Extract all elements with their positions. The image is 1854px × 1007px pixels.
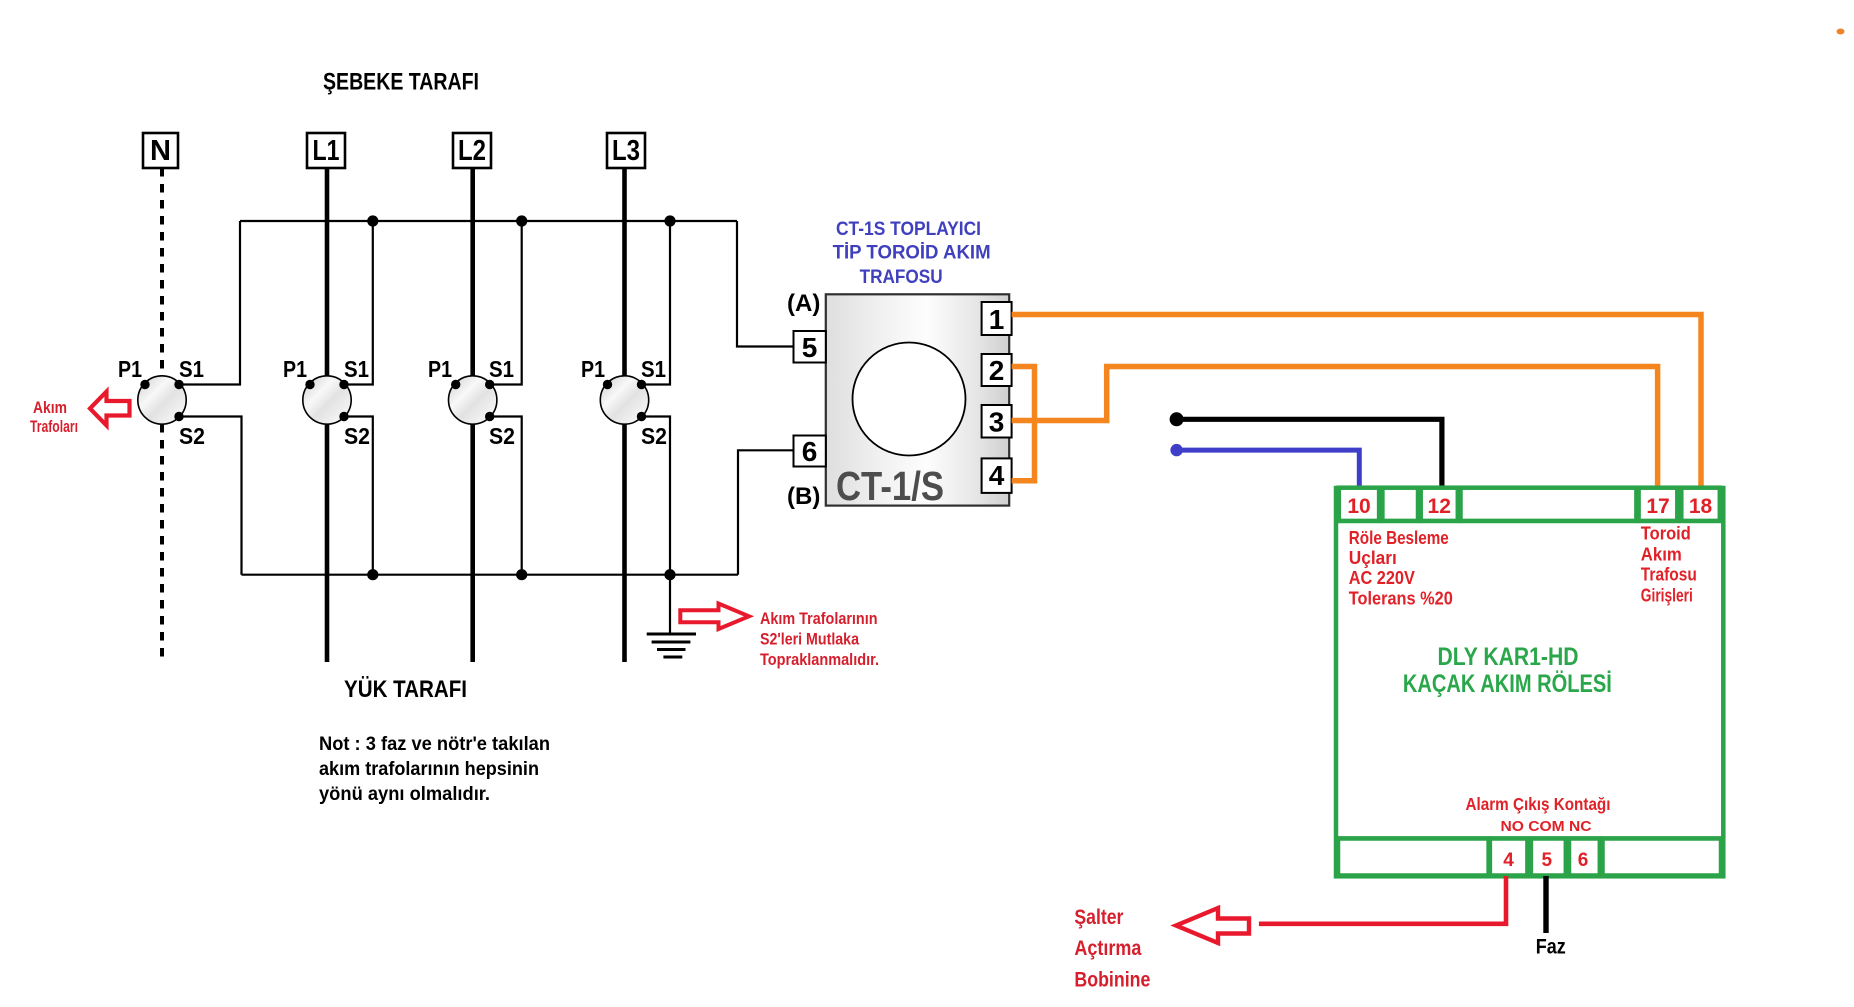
svg-text:Uçları: Uçları bbox=[1349, 547, 1397, 568]
svg-text:(A): (A) bbox=[787, 290, 820, 317]
svg-text:P1: P1 bbox=[581, 356, 605, 382]
svg-text:TRAFOSU: TRAFOSU bbox=[860, 266, 943, 288]
svg-text:Alarm Çıkış Kontağı: Alarm Çıkış Kontağı bbox=[1466, 794, 1611, 814]
svg-text:S2: S2 bbox=[344, 423, 370, 449]
svg-text:TİP TOROİD AKIM: TİP TOROİD AKIM bbox=[833, 241, 991, 264]
svg-text:18: 18 bbox=[1689, 495, 1713, 518]
svg-text:4: 4 bbox=[1503, 850, 1514, 871]
svg-text:L2: L2 bbox=[458, 135, 486, 167]
svg-text:Bobinine: Bobinine bbox=[1074, 969, 1150, 992]
svg-text:12: 12 bbox=[1428, 495, 1451, 518]
svg-text:CT-1S TOPLAYICI: CT-1S TOPLAYICI bbox=[836, 218, 981, 240]
svg-text:17: 17 bbox=[1646, 495, 1669, 518]
svg-text:KAÇAK AKIM RÖLESİ: KAÇAK AKIM RÖLESİ bbox=[1403, 669, 1612, 698]
svg-text:Trafoları: Trafoları bbox=[30, 418, 78, 436]
svg-text:AC 220V: AC 220V bbox=[1349, 567, 1416, 588]
svg-text:yönü aynı olmalıdır.: yönü aynı olmalıdır. bbox=[319, 783, 490, 805]
svg-text:1: 1 bbox=[989, 304, 1005, 335]
svg-text:6: 6 bbox=[1578, 850, 1589, 871]
svg-text:YÜK TARAFI: YÜK TARAFI bbox=[344, 676, 467, 703]
svg-text:5: 5 bbox=[1542, 850, 1553, 871]
svg-text:S1: S1 bbox=[344, 356, 369, 382]
svg-text:CT-1/S: CT-1/S bbox=[836, 463, 944, 509]
svg-text:6: 6 bbox=[802, 436, 818, 467]
svg-text:L1: L1 bbox=[313, 135, 340, 167]
svg-text:S1: S1 bbox=[489, 356, 514, 382]
svg-text:10: 10 bbox=[1347, 495, 1370, 518]
svg-text:NO COM NC: NO COM NC bbox=[1501, 819, 1593, 835]
svg-text:Faz: Faz bbox=[1536, 935, 1566, 959]
svg-text:DLY KAR1-HD: DLY KAR1-HD bbox=[1438, 643, 1579, 671]
svg-text:S2: S2 bbox=[489, 423, 515, 449]
svg-text:Röle Besleme: Röle Besleme bbox=[1349, 527, 1449, 548]
svg-text:5: 5 bbox=[802, 332, 818, 363]
svg-text:Akım: Akım bbox=[33, 399, 67, 417]
svg-text:(B): (B) bbox=[787, 483, 820, 510]
svg-text:P1: P1 bbox=[118, 356, 142, 382]
svg-text:Akım Trafolarının: Akım Trafolarının bbox=[760, 610, 878, 628]
svg-text:Not : 3 faz ve nötr'e takılan: Not : 3 faz ve nötr'e takılan bbox=[319, 733, 550, 755]
svg-text:akım trafolarının hepsinin: akım trafolarının hepsinin bbox=[319, 758, 539, 780]
svg-text:Trafosu: Trafosu bbox=[1641, 564, 1697, 585]
svg-text:N: N bbox=[150, 135, 171, 167]
svg-text:2: 2 bbox=[989, 355, 1005, 386]
svg-text:S1: S1 bbox=[179, 356, 204, 382]
svg-text:S2: S2 bbox=[641, 423, 667, 449]
svg-text:S2'leri Mutlaka: S2'leri Mutlaka bbox=[760, 631, 860, 649]
svg-text:Akım: Akım bbox=[1641, 544, 1682, 565]
svg-text:Açtırma: Açtırma bbox=[1074, 937, 1141, 960]
svg-text:Şalter: Şalter bbox=[1074, 906, 1123, 929]
svg-text:4: 4 bbox=[989, 460, 1005, 491]
svg-text:P1: P1 bbox=[428, 356, 452, 382]
svg-text:Topraklanmalıdır.: Topraklanmalıdır. bbox=[760, 651, 879, 669]
svg-text:Girişleri: Girişleri bbox=[1641, 585, 1693, 606]
svg-text:Toroid: Toroid bbox=[1641, 522, 1691, 543]
svg-text:L3: L3 bbox=[612, 135, 640, 167]
svg-text:P1: P1 bbox=[283, 356, 307, 382]
svg-text:Tolerans %20: Tolerans %20 bbox=[1349, 588, 1453, 609]
svg-text:S2: S2 bbox=[179, 423, 205, 449]
svg-text:3: 3 bbox=[989, 407, 1005, 438]
svg-text:S1: S1 bbox=[641, 356, 666, 382]
svg-text:ŞEBEKE TARAFI: ŞEBEKE TARAFI bbox=[323, 69, 479, 96]
